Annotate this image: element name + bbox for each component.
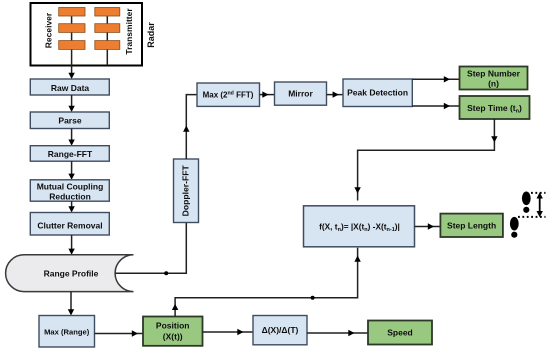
svg-text:Range-FFT: Range-FFT — [48, 149, 93, 159]
svg-text:Raw Data: Raw Data — [51, 83, 90, 93]
wire position to f box — [175, 248, 358, 317]
block Step Length — [440, 214, 503, 237]
wire peak detection to step number — [412, 78, 459, 80]
block Clutter Removal — [30, 213, 109, 236]
antenna element RX2 — [59, 24, 85, 33]
wire delta box to speed — [307, 332, 368, 334]
footprint left heel — [511, 232, 517, 238]
block Parse — [30, 112, 109, 129]
arrowhead into clutter removal — [68, 206, 74, 212]
svg-text:Radar: Radar — [146, 22, 156, 48]
svg-text:Parse: Parse — [58, 116, 81, 126]
arrowhead mid wire doppler-fft up — [183, 126, 189, 132]
label Receiver — [43, 12, 53, 48]
wire range-fft to mutual coupling reduction — [71, 161, 73, 176]
arrowhead into position — [132, 330, 138, 336]
arrowhead into parse — [68, 106, 74, 112]
arrowhead into f box top — [354, 187, 360, 193]
svg-text:Transmitter: Transmitter — [124, 8, 134, 55]
dotted line middle — [518, 216, 546, 218]
arrowhead mid wire step time down — [491, 136, 497, 142]
arrowhead into mirror — [262, 91, 268, 97]
arrowhead into f box bottom — [354, 256, 360, 262]
junction dot on wire range profile to doppler-fft — [164, 271, 168, 275]
wire position to delta box — [203, 331, 254, 333]
svg-text:Step Time (tn): Step Time (tn) — [467, 103, 522, 115]
arrowhead into mutual coupling reduction — [68, 174, 74, 180]
arrowhead into step number — [444, 76, 450, 82]
block delta X / delta T — [253, 316, 307, 345]
radar box — [31, 3, 143, 66]
wire peak detection to step time — [412, 105, 459, 107]
antenna element TX3 — [95, 41, 120, 50]
antenna element TX1 — [95, 8, 120, 17]
label Transmitter — [124, 8, 134, 55]
arrowhead into step length — [428, 223, 434, 229]
block Step Number (n) — [460, 67, 528, 90]
double arrow step length — [539, 197, 541, 214]
arrowhead into range profile — [68, 249, 74, 255]
svg-text:Peak Detection: Peak Detection — [347, 88, 408, 98]
wire transmitter antenna feed line — [106, 10, 108, 65]
svg-text:Speed: Speed — [387, 328, 413, 338]
arrowhead into max (range) — [68, 309, 74, 315]
wire range profile to doppler-fft — [116, 223, 187, 274]
block Peak Detection — [343, 79, 412, 107]
svg-text:Clutter Removal: Clutter Removal — [37, 221, 102, 231]
wire mirror to peak detection — [327, 94, 344, 96]
arrowhead position up — [172, 304, 178, 310]
block Doppler-FFT — [174, 159, 199, 223]
footprint left sole — [510, 217, 519, 231]
wire radar to raw data — [71, 65, 73, 75]
antenna element TX2 — [95, 24, 120, 33]
block Speed — [368, 321, 432, 345]
wire step time to f box — [358, 119, 495, 201]
wire max 2nd fft to mirror — [260, 94, 275, 96]
block Raw Data — [30, 79, 109, 95]
svg-text:(X(t)): (X(t)) — [163, 332, 183, 342]
arrowhead into raw data — [68, 73, 74, 79]
block Step Time (tn) — [460, 96, 530, 119]
arrowhead into delta box — [237, 329, 243, 335]
antenna element RX3 — [59, 41, 85, 50]
svg-text:Doppler-FFT: Doppler-FFT — [180, 165, 190, 217]
block Max (Range) — [39, 316, 95, 348]
svg-text:Step Number: Step Number — [467, 68, 521, 78]
svg-text:Reduction: Reduction — [49, 191, 91, 201]
footprint right sole — [522, 192, 531, 206]
arrowhead into peak detection — [333, 91, 339, 97]
icon footprints step length illustration — [510, 192, 546, 238]
wire clutter removal to range profile — [71, 235, 73, 251]
block Range-FFT — [30, 146, 109, 162]
wire max (range) to position — [95, 333, 144, 335]
block Position (X(t)) — [143, 317, 203, 346]
wire receiver antenna feed line — [71, 10, 73, 65]
dotted line top — [531, 192, 546, 194]
wire raw data to parse — [71, 95, 73, 108]
block Max (2nd FFT) — [197, 83, 260, 106]
wire f box to step length — [415, 226, 441, 228]
block Mutual Coupling Reduction — [30, 180, 109, 202]
junction dot on wire position to f box — [311, 296, 315, 300]
wire mutual coupling reduction to clutter removal — [71, 201, 73, 208]
arrowhead into speed — [348, 330, 354, 336]
arrowhead into range-fft — [68, 140, 74, 146]
svg-text:Position: Position — [156, 321, 190, 331]
block f(X,tn) — [304, 206, 415, 247]
svg-text:Mirror: Mirror — [288, 89, 313, 99]
antenna element RX1 — [59, 8, 85, 17]
wire parse to range-fft — [71, 129, 73, 142]
arrowhead into step time — [444, 103, 450, 109]
svg-text:Step Length: Step Length — [447, 220, 496, 230]
label Radar — [146, 22, 156, 48]
svg-text:Receiver: Receiver — [43, 12, 53, 48]
svg-text:Δ(X)/Δ(T): Δ(X)/Δ(T) — [262, 325, 299, 335]
svg-text:(n): (n) — [488, 79, 499, 89]
wire range profile to max (range) — [70, 292, 72, 312]
svg-text:Mutual Coupling: Mutual Coupling — [37, 182, 104, 192]
svg-text:Max (Range): Max (Range) — [44, 327, 90, 336]
svg-text:Range Profile: Range Profile — [44, 268, 99, 278]
storage Range Profile (horizontal cylinder) — [6, 255, 134, 292]
wire doppler-fft to max 2nd fft — [186, 95, 197, 159]
block Mirror — [275, 82, 327, 105]
footprint right heel — [523, 207, 529, 213]
